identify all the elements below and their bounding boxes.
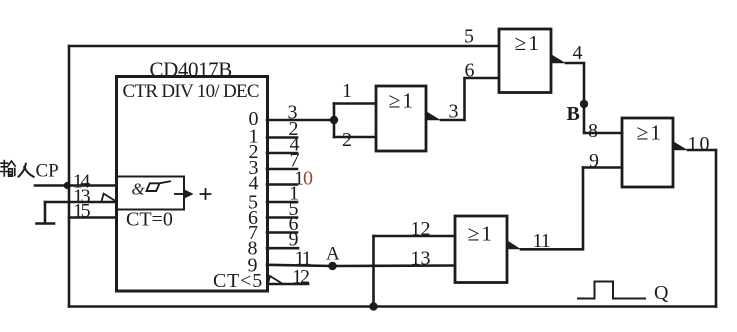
svg-text:8: 8 (588, 120, 598, 142)
ground (37, 202, 55, 224)
svg-text:CP: CP (36, 161, 59, 182)
wire Q9 pin 11 to gate U4 input 13 (267, 265, 455, 266)
gate U3 or-gate box (622, 118, 673, 187)
gate U2 output wedge (552, 55, 567, 64)
svg-text:CT=0: CT=0 (126, 209, 173, 231)
svg-text:B: B (567, 103, 580, 125)
wire gate U2 output 4 to node B and input 8 (566, 63, 622, 133)
svg-text:Q: Q (654, 282, 669, 304)
wire bottom rail (69, 305, 716, 308)
wire CT<5 pin 12 stub (268, 283, 308, 286)
svg-text:CD4017B: CD4017B (150, 58, 232, 82)
svg-text:12: 12 (411, 218, 431, 240)
wire gate U4 input 12 (374, 235, 456, 238)
wire pin 15 (69, 216, 117, 219)
gate U4 output wedge (508, 241, 522, 250)
svg-text:11: 11 (533, 230, 550, 252)
svg-text:4: 4 (573, 42, 583, 64)
svg-text:10: 10 (688, 133, 712, 155)
carry CT<5 output wedge (268, 276, 282, 284)
svg-text:9: 9 (589, 150, 599, 172)
svg-text:A: A (326, 244, 340, 265)
svg-text:13: 13 (411, 248, 431, 270)
IC U5 CD4017B outline (117, 77, 268, 292)
wire Q8 pin 9 stub (267, 247, 298, 250)
hanzi shu (input) (1, 161, 15, 177)
waveform Q pulse (578, 282, 645, 299)
clock block inner box (117, 177, 185, 210)
node bottom rail junction (369, 302, 377, 310)
pin 13 dynamic wedge (102, 194, 117, 202)
wire left rail (68, 46, 71, 307)
svg-text:5: 5 (464, 26, 474, 48)
wire input CP (35, 184, 117, 187)
svg-text:3: 3 (449, 101, 459, 123)
wire gate U1 input 2 (334, 136, 376, 139)
svg-text:9: 9 (248, 255, 258, 277)
svg-text:≥1: ≥1 (468, 222, 495, 246)
wire gate U1 input 1 (334, 102, 376, 105)
node CP junction dot (64, 182, 71, 189)
node B (580, 100, 588, 108)
arrow clock to counter (175, 193, 186, 195)
wire pin 13 to ground (45, 201, 117, 204)
dynamic edge flag symbol (147, 181, 171, 191)
wire Q5 pin 1 stub (267, 201, 297, 204)
node Q0 branch (333, 104, 336, 138)
svg-text:2: 2 (342, 129, 352, 151)
wire gate U3 output 10 (688, 149, 716, 152)
hanzi ru (CP) (19, 164, 34, 177)
svg-text:≥1: ≥1 (637, 121, 664, 145)
svg-text:CTR DIV 10/ DEC: CTR DIV 10/ DEC (123, 81, 259, 102)
wire gate U3 input 9 (583, 166, 622, 169)
wire right drop from gate U3 output (715, 150, 718, 307)
svg-text:1: 1 (342, 80, 352, 102)
gate U3 output wedge (674, 142, 689, 151)
wire Q7 pin 6 stub (267, 231, 297, 234)
plus sign after arrow (201, 189, 211, 199)
wire Q2 pin 4 stub (267, 152, 297, 155)
wire gate U1 output 3 (441, 78, 499, 120)
wire Q4 pin 10 stub (267, 183, 297, 186)
svg-text:15: 15 (73, 200, 91, 222)
node A (328, 262, 336, 270)
svg-text:≥1: ≥1 (515, 31, 542, 55)
svg-text:&: & (132, 180, 146, 199)
gate U1 output wedge (427, 112, 442, 121)
svg-text:6: 6 (465, 60, 475, 82)
gate U1 or-gate box (376, 86, 426, 151)
gate U4 or-gate box (455, 216, 507, 283)
svg-text:≥1: ≥1 (389, 89, 416, 113)
gate U2 or-gate box (499, 29, 551, 93)
wire gate U4 input 12 drop to bottom rail (372, 236, 375, 307)
wire Q1 pin 2 stub (267, 136, 297, 139)
wire Q3 pin 7 stub (267, 168, 297, 171)
svg-text:12: 12 (292, 266, 309, 288)
wire Q0 pin 3 (267, 119, 334, 122)
wire gate U4 output 11 up to input 9 (521, 168, 583, 250)
wire Q6 pin 5 stub (267, 216, 297, 219)
wire top rail to gate input 5 (69, 45, 499, 48)
